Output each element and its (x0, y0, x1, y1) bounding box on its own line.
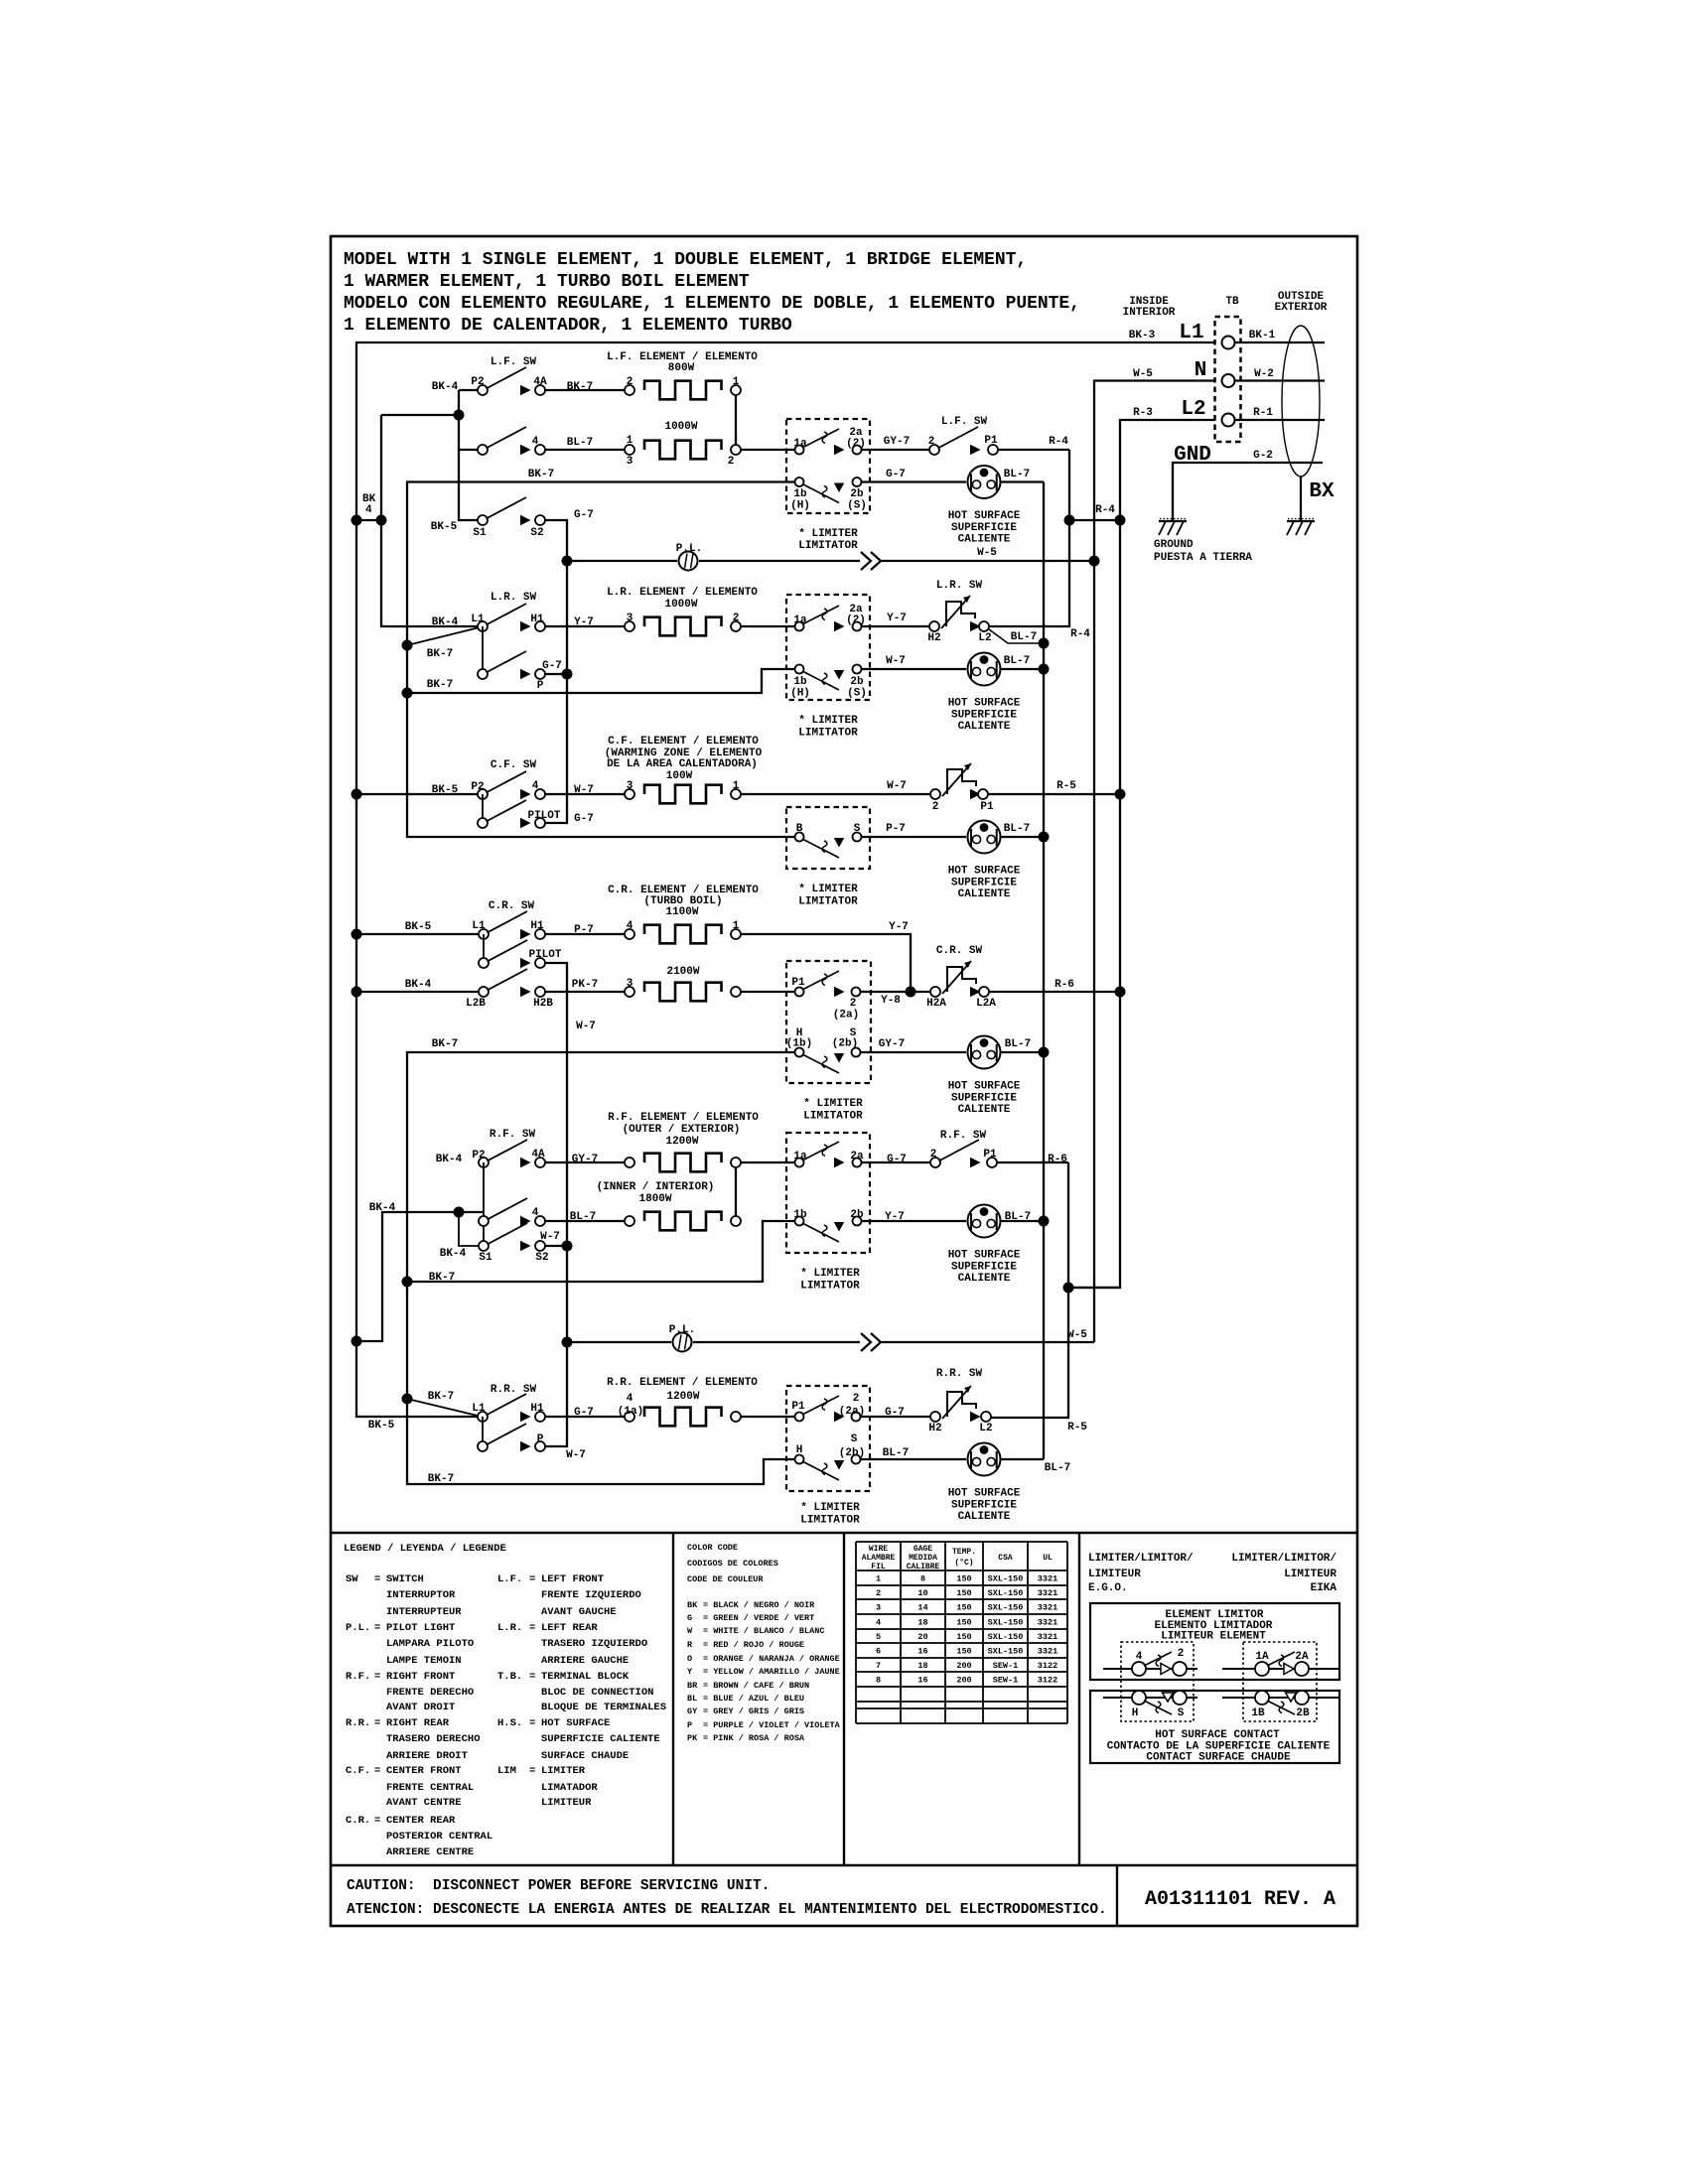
svg-text:H2: H2 (927, 632, 940, 644)
svg-text:SW: SW (346, 1573, 358, 1585)
svg-text:W: W (687, 1626, 693, 1636)
switch L.F. SW pole 2-P1 (928, 427, 978, 455)
svg-text:(OUTER / EXTERIOR): (OUTER / EXTERIOR) (623, 1124, 741, 1136)
limiter R.R. contact H-2b (795, 1433, 866, 1480)
svg-text:H: H (1132, 1707, 1139, 1719)
switch R.R. SW pole P (478, 1424, 526, 1451)
svg-text:SEW-1: SEW-1 (993, 1661, 1019, 1671)
svg-text:1B: 1B (1251, 1707, 1265, 1719)
wire L2 R-1 outside (1235, 407, 1326, 420)
svg-text:(S): (S) (847, 500, 867, 512)
svg-text:G-7: G-7 (574, 509, 594, 521)
svg-text:(INNER / INTERIOR): (INNER / INTERIOR) (597, 1181, 715, 1193)
svg-text:LIMITEUR: LIMITEUR (541, 1797, 592, 1809)
element R.F. inner title (597, 1181, 715, 1205)
limiter C.R. text (803, 1098, 863, 1123)
svg-text:LAMPARA PILOTO: LAMPARA PILOTO (386, 1638, 474, 1650)
wire BL-7 bus vertical (1043, 482, 1045, 1460)
terminal (R.F. inner right) (731, 1216, 741, 1226)
svg-text:PUESTA A TIERRA: PUESTA A TIERRA (1154, 552, 1252, 564)
svg-text:6: 6 (876, 1647, 881, 1657)
svg-text:Y-7: Y-7 (885, 1211, 905, 1223)
svg-text:BL-7: BL-7 (1011, 631, 1037, 643)
wire element bridge L.F. (735, 395, 737, 445)
svg-text:LIMITATOR: LIMITATOR (800, 1515, 860, 1527)
terminal 1 (L.F. element) (731, 376, 741, 395)
limiter box R.F. (786, 1133, 870, 1253)
svg-text:3: 3 (627, 456, 633, 468)
svg-text:SWITCH: SWITCH (386, 1573, 424, 1585)
svg-text:LIMITEUR: LIMITEUR (1088, 1569, 1141, 1580)
caution text (347, 1878, 1107, 1918)
svg-text:(H): (H) (790, 688, 810, 700)
svg-text:R.F. ELEMENT / ELEMENTO: R.F. ELEMENT / ELEMENTO (608, 1112, 759, 1124)
svg-text:= PINK / ROSA / ROSA: = PINK / ROSA / ROSA (703, 1733, 805, 1743)
svg-text:P-7: P-7 (574, 924, 594, 936)
svg-text:LEFT FRONT: LEFT FRONT (541, 1573, 604, 1585)
wire R-5 R.R. label (1067, 1422, 1087, 1433)
svg-text:TRASERO DERECHO: TRASERO DERECHO (386, 1733, 481, 1745)
wire to limiter L.F. (741, 449, 794, 451)
terminal P1 (R.F.) (970, 1149, 997, 1167)
svg-text:GY: GY (687, 1706, 698, 1716)
svg-text:L2: L2 (978, 632, 991, 644)
limiter legend headers (1088, 1553, 1336, 1594)
terminal TB-L2 (1222, 414, 1235, 427)
svg-text:150: 150 (956, 1588, 971, 1598)
limiter sample dotted box left (1121, 1642, 1194, 1721)
svg-text:BL-7: BL-7 (1005, 1211, 1031, 1223)
svg-text:W-7: W-7 (887, 780, 907, 792)
svg-text:PILOT LIGHT: PILOT LIGHT (386, 1622, 455, 1634)
hot surface indicator R.F. (948, 1205, 1021, 1286)
svg-text:R-4: R-4 (1070, 628, 1090, 640)
svg-text:BK-5: BK-5 (431, 521, 458, 533)
svg-text:2: 2 (932, 801, 939, 813)
element C.R. 2100W label (666, 966, 699, 978)
svg-text:H2A: H2A (926, 998, 946, 1010)
svg-text:MODEL WITH 1 SINGLE ELEMENT, 1: MODEL WITH 1 SINGLE ELEMENT, 1 DOUBLE EL… (344, 250, 1027, 270)
wire BL-7 C.F. (1001, 823, 1050, 843)
limiter R.F. text (800, 1268, 860, 1293)
svg-text:BK-7: BK-7 (528, 469, 554, 480)
svg-text:S1: S1 (479, 1252, 492, 1264)
cable sheath ellipse (1282, 326, 1320, 477)
heating element L.F. 800W (644, 381, 722, 400)
wire S2 to W bus (545, 1241, 573, 1252)
svg-text:= PURPLE / VIOLET / VIOLETA: = PURPLE / VIOLET / VIOLETA (703, 1720, 841, 1730)
svg-text:LIMITEUR ELEMENT: LIMITEUR ELEMENT (1161, 1631, 1266, 1643)
junction R-6 to R bus (1063, 1283, 1121, 1294)
svg-text:BLOC DE CONNECTION: BLOC DE CONNECTION (541, 1687, 653, 1699)
svg-text:= BLACK / NEGRO / NOIR: = BLACK / NEGRO / NOIR (703, 1600, 815, 1610)
svg-text:AVANT CENTRE: AVANT CENTRE (386, 1797, 462, 1809)
svg-text:RIGHT REAR: RIGHT REAR (386, 1717, 450, 1729)
heating element R.R. 1200W (644, 1408, 722, 1427)
svg-text:S: S (854, 823, 861, 835)
svg-text:SXL-150: SXL-150 (988, 1574, 1024, 1584)
svg-text:=: = (374, 1765, 380, 1777)
limiter L.F. text (798, 528, 858, 552)
terminal PILOT (C.F.) (520, 810, 594, 828)
terminal 1 (C.R. element) (731, 920, 741, 939)
svg-text:E.G.O.: E.G.O. (1088, 1582, 1128, 1594)
limiter R.R. text (800, 1502, 860, 1527)
svg-text:P1: P1 (791, 977, 805, 989)
wire BK-4 feed L.R. (432, 616, 459, 628)
terminal H1 (C.R.) (520, 920, 545, 939)
svg-text:CALIBRE: CALIBRE (907, 1563, 940, 1571)
wire W-5 pilot 1 (699, 547, 1100, 570)
terminal 4A (R.F.) (520, 1149, 545, 1167)
svg-text:PILOT: PILOT (528, 949, 561, 961)
svg-text:BK-7: BK-7 (567, 381, 593, 393)
wire W-7 to hot surface L.R. (862, 655, 966, 669)
svg-text:=: = (374, 1671, 380, 1683)
wire BL-7 R.F. (545, 1211, 625, 1223)
svg-text:G-7: G-7 (574, 813, 594, 825)
wire P to W bus (545, 669, 573, 680)
svg-text:L1: L1 (471, 614, 485, 625)
svg-text:FRENTE IZQUIERDO: FRENTE IZQUIERDO (541, 1589, 641, 1601)
svg-text:R-5: R-5 (1067, 1422, 1087, 1433)
svg-text:4A: 4A (531, 1149, 545, 1160)
svg-text:2b: 2b (850, 676, 864, 688)
wire P-7 to hot surface C.F. (862, 823, 966, 837)
svg-text:LIMITER/LIMITOR/: LIMITER/LIMITOR/ (1088, 1553, 1194, 1565)
wire BL-7 to hot surface R.R. (861, 1447, 966, 1459)
svg-text:= RED / ROJO / ROUGE: = RED / ROJO / ROUGE (703, 1640, 804, 1650)
svg-text:W-7: W-7 (576, 1021, 596, 1032)
svg-text:(2a): (2a) (833, 1010, 859, 1022)
svg-text:150: 150 (956, 1574, 971, 1584)
svg-text:1a: 1a (793, 1151, 807, 1162)
limiter box C.F. (786, 807, 870, 869)
heating element L.F. 1000W (644, 441, 722, 460)
svg-text:TEMP.: TEMP. (952, 1548, 976, 1557)
svg-text:W-5: W-5 (1133, 368, 1153, 380)
wire R-6 R.F. (991, 1154, 1068, 1418)
svg-text:L2B: L2B (466, 998, 486, 1010)
svg-text:EXTERIOR: EXTERIOR (1275, 302, 1328, 314)
svg-text:H2: H2 (928, 1423, 941, 1434)
wire to pilot light 1 (567, 560, 677, 562)
terminal 3 (C.R. inner) (625, 978, 634, 997)
wire BK-7 bus lower (407, 1038, 794, 1484)
switch R.F. SW label (490, 1129, 536, 1141)
wire BK-5 L.F. S-row (356, 520, 458, 533)
wire to limiter R.R. (741, 1416, 794, 1418)
svg-text:R-1: R-1 (1253, 407, 1273, 419)
wire BK-4 vertical x384 (376, 415, 479, 626)
svg-text:LIMITATOR: LIMITATOR (800, 1281, 860, 1293)
svg-text:4: 4 (365, 504, 372, 516)
svg-text:= BLUE / AZUL / BLEU: = BLUE / AZUL / BLEU (703, 1694, 804, 1704)
svg-text:3321: 3321 (1038, 1618, 1057, 1628)
switch R.F. SW pole 4 (479, 1198, 527, 1226)
svg-text:POSTERIOR CENTRAL: POSTERIOR CENTRAL (386, 1831, 492, 1843)
svg-text:3122: 3122 (1038, 1676, 1057, 1686)
terminal 4A (520, 376, 547, 395)
svg-text:2A: 2A (1295, 1651, 1309, 1663)
heating element C.R. 1100W (644, 925, 722, 944)
svg-text:EIKA: EIKA (1311, 1582, 1337, 1594)
svg-text:3: 3 (627, 613, 633, 624)
svg-text:10: 10 (917, 1588, 927, 1598)
svg-text:P: P (537, 1433, 544, 1445)
svg-text:SUPERFICIE: SUPERFICIE (951, 1262, 1017, 1274)
svg-text:(2b): (2b) (839, 1447, 865, 1459)
svg-text:INTERRUPTEUR: INTERRUPTEUR (386, 1606, 462, 1618)
switch C.F. SW label (491, 759, 537, 771)
svg-text:MODELO CON ELEMENTO REGULARE,: MODELO CON ELEMENTO REGULARE, 1 ELEMENTO… (344, 294, 1080, 314)
svg-text:LIMATADOR: LIMATADOR (541, 1782, 598, 1794)
svg-text:1b: 1b (793, 1209, 807, 1221)
terminal TB-N (1222, 374, 1235, 387)
terminal 4 (C.R. element) (625, 920, 634, 939)
terminal block labels (1123, 291, 1328, 319)
junction R-4 bus (1064, 504, 1126, 526)
junction pilot 1 (562, 556, 573, 567)
terminal H1 (R.R.) (520, 1403, 545, 1422)
svg-text:2: 2 (853, 1393, 860, 1405)
svg-text:C.F.: C.F. (346, 1765, 370, 1777)
wire gauge table (856, 1542, 1067, 1723)
svg-text:=: = (529, 1573, 535, 1585)
svg-text:* LIMITER: * LIMITER (803, 1098, 863, 1110)
wire BL-7 L.R. (1001, 655, 1050, 675)
svg-text:ATENCION: DESCONECTE LA ENERGI: ATENCION: DESCONECTE LA ENERGIA ANTES DE… (347, 1902, 1107, 1918)
terminal S2 (520, 515, 545, 539)
svg-text:W-5: W-5 (977, 547, 997, 559)
title text block (344, 250, 1080, 336)
terminal 2 (L.R. element) (731, 613, 741, 631)
svg-text:L1: L1 (472, 920, 486, 932)
svg-text:=: = (374, 1717, 380, 1729)
svg-text:BK-7: BK-7 (428, 1473, 454, 1485)
svg-text:GY-7: GY-7 (572, 1154, 598, 1165)
svg-text:LEFT REAR: LEFT REAR (541, 1622, 598, 1634)
svg-text:PK-7: PK-7 (572, 979, 598, 991)
switch L.R. SW pole L1 (471, 604, 526, 674)
svg-text:L.R. SW: L.R. SW (936, 580, 983, 592)
svg-text:L.F.: L.F. (497, 1573, 522, 1585)
svg-text:SXL-150: SXL-150 (988, 1632, 1024, 1642)
heating element C.R. 2100W (644, 983, 722, 1002)
legend area dividers (331, 1533, 1357, 1926)
svg-text:4: 4 (532, 780, 539, 792)
svg-text:SUPERFICIE: SUPERFICIE (951, 710, 1017, 722)
svg-text:R-5: R-5 (1056, 780, 1076, 792)
svg-text:18: 18 (917, 1618, 927, 1628)
switch C.R. SW pole L1 (472, 911, 527, 963)
terminal P1 (L.F.) (970, 435, 998, 455)
svg-text:W-7: W-7 (566, 1449, 586, 1461)
svg-text:S1: S1 (473, 527, 487, 539)
svg-text:BK-4: BK-4 (432, 616, 459, 628)
switch R.F. SW pole P2 (472, 1140, 527, 1246)
svg-text:W-7: W-7 (540, 1231, 560, 1243)
svg-text:A01311101 REV. A: A01311101 REV. A (1145, 1888, 1336, 1911)
svg-text:=: = (529, 1717, 535, 1729)
svg-text:BL-7: BL-7 (1045, 1462, 1070, 1474)
svg-text:3: 3 (876, 1603, 881, 1613)
svg-text:ARRIERE GAUCHE: ARRIERE GAUCHE (541, 1655, 629, 1667)
wire BL-7 L.F. row B (545, 437, 625, 450)
wire BK-4 feed L.F. (381, 381, 479, 520)
svg-text:4: 4 (627, 920, 633, 932)
terminal 3 (L.R. element) (625, 613, 634, 631)
svg-text:C.F. ELEMENT / ELEMENTO: C.F. ELEMENT / ELEMENTO (608, 736, 759, 748)
svg-text:R-6: R-6 (1048, 1154, 1067, 1165)
svg-text:BK-3: BK-3 (1129, 330, 1156, 341)
switch L.F. SW label (491, 356, 537, 368)
switch L.R. SW (right) label (936, 580, 983, 592)
terminal P (R.R.) (520, 1433, 586, 1461)
svg-text:2100W: 2100W (666, 966, 699, 978)
border frame (331, 236, 1357, 1926)
svg-text:W-2: W-2 (1254, 368, 1274, 380)
svg-text:= YELLOW / AMARILLO / JAUNE: = YELLOW / AMARILLO / JAUNE (703, 1667, 840, 1677)
svg-text:2b: 2b (850, 488, 864, 500)
wire L1 BK-3 (left bus feed) (356, 330, 1215, 1417)
wire to pilot light 2 (567, 1341, 671, 1343)
svg-text:R-3: R-3 (1133, 407, 1153, 419)
svg-text:CENTER FRONT: CENTER FRONT (386, 1765, 462, 1777)
svg-text:8: 8 (920, 1574, 925, 1584)
svg-text:BK-5: BK-5 (368, 1420, 395, 1432)
svg-text:GY-7: GY-7 (884, 436, 910, 448)
wire BK-4 feed R.F. (356, 1154, 484, 1341)
svg-text:Y-8: Y-8 (881, 995, 901, 1007)
limiter sample contact 1B-2B (1222, 1691, 1339, 1719)
terminal (R.F. outer right) (731, 1158, 741, 1167)
wire BK-7 L.F. row A (545, 381, 625, 393)
svg-text:BL-7: BL-7 (1004, 469, 1030, 480)
svg-text:L.R. SW: L.R. SW (491, 592, 537, 604)
svg-text:LIMITER/LIMITOR/: LIMITER/LIMITOR/ (1231, 1553, 1336, 1565)
svg-text:L1: L1 (1179, 322, 1203, 344)
svg-text:PILOT: PILOT (527, 810, 560, 822)
element C.F. title (605, 736, 763, 782)
svg-text:= GREY / GRIS / GRIS: = GREY / GRIS / GRIS (703, 1706, 804, 1716)
wire BX drop (1301, 477, 1335, 521)
limiter L.F. contact 1b-2b (790, 478, 867, 512)
svg-text:LIM: LIM (497, 1765, 516, 1777)
svg-text:AVANT DROIT: AVANT DROIT (386, 1702, 455, 1713)
wire to limiter C.R. (741, 991, 794, 993)
terminal L2 (R.R.) (970, 1412, 993, 1434)
svg-text:HOT SURFACE: HOT SURFACE (541, 1717, 610, 1729)
svg-text:3: 3 (627, 978, 633, 990)
svg-text:H: H (796, 1444, 803, 1456)
svg-text:LIMITATOR: LIMITATOR (798, 540, 858, 552)
junction pilot 2 (562, 1337, 573, 1348)
terminal PILOT (C.R.) (520, 949, 562, 968)
svg-text:150: 150 (956, 1632, 971, 1642)
switch L.R. SW label (491, 592, 537, 604)
svg-text:S: S (1178, 1707, 1185, 1719)
wire BL-7 R.F. right (1001, 1211, 1050, 1227)
terminal (R.F. inner left) (625, 1216, 634, 1226)
svg-text:1: 1 (733, 780, 740, 792)
svg-text:2: 2 (850, 998, 857, 1010)
svg-text:BL-7: BL-7 (1005, 1038, 1031, 1050)
element L.R. title (607, 587, 758, 611)
terminal TB-L1 (1222, 337, 1235, 349)
svg-text:1a: 1a (793, 438, 807, 450)
svg-text:C.R.: C.R. (346, 1815, 370, 1827)
wire to limiter R.F. (741, 1161, 794, 1163)
svg-text:G: G (687, 1613, 692, 1623)
wire N W-5 inside (1094, 368, 1215, 1342)
svg-text:C.F. SW: C.F. SW (491, 759, 537, 771)
switch R.F. SW pole S1 (440, 1212, 527, 1264)
svg-text:L2: L2 (979, 1423, 992, 1434)
svg-text:2: 2 (1178, 1648, 1185, 1660)
wire P-7 C.R. (545, 924, 625, 936)
svg-text:R-4: R-4 (1049, 436, 1068, 448)
terminal L2A (970, 987, 996, 1010)
hot surface indicator R.R. (948, 1443, 1021, 1524)
svg-text:R.F.: R.F. (346, 1671, 370, 1683)
svg-text:4: 4 (1136, 1651, 1143, 1663)
svg-text:R.R.: R.R. (346, 1717, 370, 1729)
svg-text:BL: BL (687, 1694, 697, 1704)
svg-text:=: = (529, 1765, 535, 1777)
svg-text:2: 2 (876, 1588, 881, 1598)
svg-text:1: 1 (733, 920, 740, 932)
svg-text:7: 7 (876, 1661, 881, 1671)
svg-text:3321: 3321 (1038, 1603, 1057, 1613)
svg-text:P2: P2 (471, 781, 484, 793)
wire W vertical upper (545, 561, 567, 823)
switch C.F. SW thermostat 2 (930, 763, 976, 813)
svg-text:L.R.: L.R. (497, 1622, 522, 1634)
wire BK-5 feed C.R. (356, 921, 478, 934)
wire GY-7 L.F. (862, 436, 929, 450)
svg-text:MEDIDA: MEDIDA (909, 1554, 937, 1563)
terminal 1/3 (L.F. inner) (625, 435, 634, 468)
svg-text:H2B: H2B (533, 998, 553, 1010)
wire G-7 R.R. right (861, 1407, 929, 1419)
switch C.R. SW pole L2B (466, 969, 527, 1010)
wire R-6 C.R. (989, 979, 1126, 998)
svg-text:T.B.: T.B. (497, 1671, 522, 1683)
svg-text:CALIENTE: CALIENTE (958, 888, 1011, 900)
svg-text:BK-7: BK-7 (427, 648, 453, 660)
svg-text:L2: L2 (1181, 398, 1205, 421)
terminal 1 (C.F. element) (731, 780, 741, 799)
element C.R. title (608, 885, 759, 918)
limiter sample contact 4-2 (1103, 1648, 1197, 1676)
limiter C.R. contact P1-2 (791, 971, 860, 1022)
svg-text:BL-7: BL-7 (567, 437, 593, 449)
element R.F. title (608, 1112, 759, 1148)
svg-text:N: N (1195, 359, 1207, 382)
switch R.R. SW thermostat H2 (928, 1386, 976, 1434)
node L2 label (1181, 398, 1205, 421)
svg-text:14: 14 (917, 1603, 927, 1613)
switch C.R. SW pole pilot (479, 940, 527, 968)
switch L.F. SW (right) label (941, 416, 988, 428)
pilot light P.L. 2 (669, 1324, 695, 1352)
switch C.F. SW pole P2 (471, 771, 526, 823)
svg-text:H1: H1 (530, 920, 544, 932)
svg-text:LIMITEUR: LIMITEUR (1284, 1569, 1336, 1580)
wire R-5 C.F. (988, 780, 1126, 800)
wire Y-7 L.R. right (862, 613, 929, 626)
